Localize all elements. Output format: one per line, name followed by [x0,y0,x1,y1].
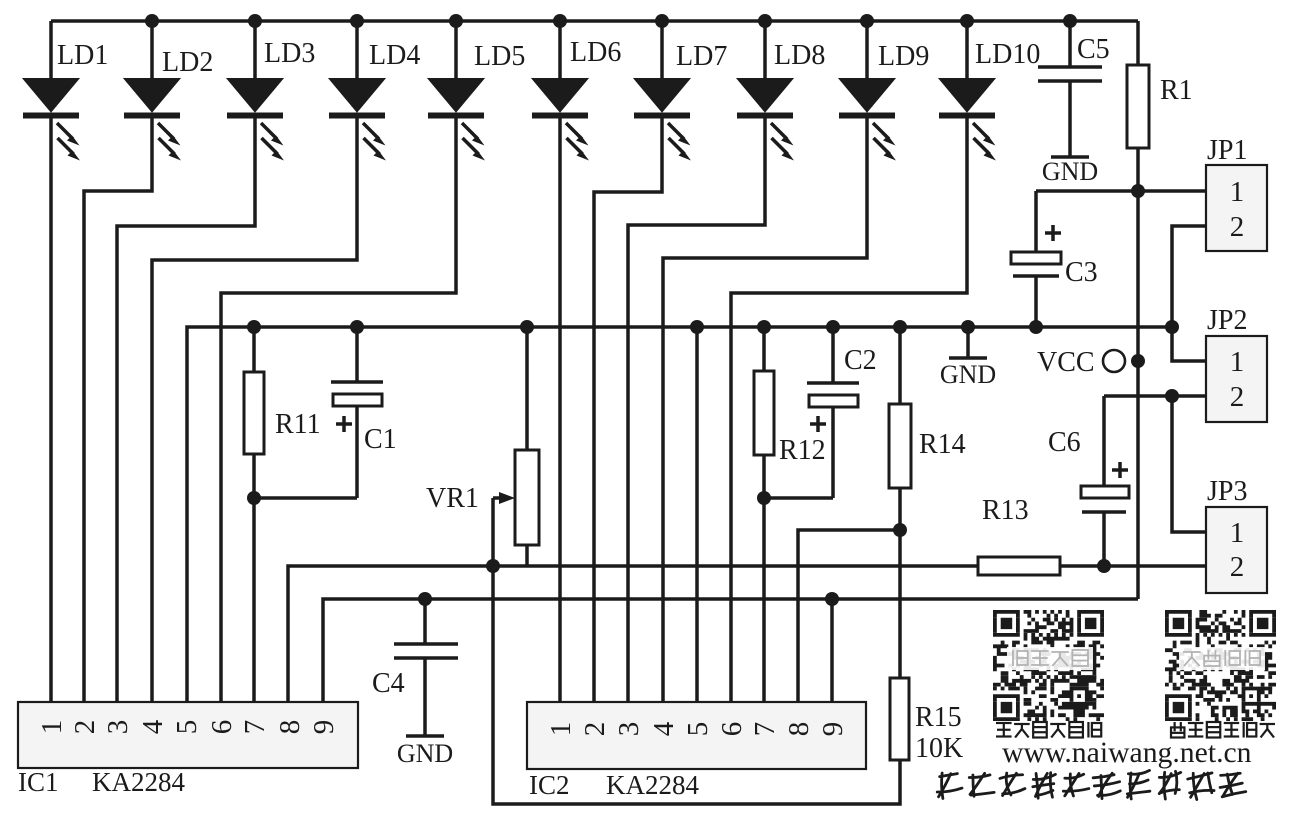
caption right QR [1171,722,1184,738]
connector JP2 [1206,305,1267,422]
ground C5 [1068,81,1072,157]
wire LD6 cathode to IC2 pin1 [558,118,562,702]
svg-text:JP3: JP3 [1207,476,1247,507]
QR code right [1165,610,1276,721]
svg-text:GND: GND [397,739,453,768]
svg-text:LD3: LD3 [264,38,315,69]
wire LD9 cathode to IC2 pin4 [663,118,867,702]
svg-text:R1: R1 [1160,75,1193,106]
IC U2 IC2 KA2284 [527,702,866,769]
svg-text:LD10: LD10 [975,39,1040,70]
svg-text:VR1: VR1 [426,483,479,514]
svg-text:LD5: LD5 [474,41,525,72]
resistor R14 [889,404,911,488]
resistor R1 [1127,65,1149,148]
capacitor C5 [1068,21,1072,67]
svg-text:C1: C1 [364,424,397,455]
wire IC2 pin8 to R14 bottom [798,530,900,702]
capacitor C1 [355,327,359,382]
QR code left [993,610,1104,721]
company name calligraphy [935,771,963,799]
svg-text:5: 5 [682,722,714,737]
resistor R15 [890,678,909,760]
svg-text:C2: C2 [844,345,877,376]
svg-text:8: 8 [274,720,306,735]
svg-text:C4: C4 [372,668,405,699]
wire VR1 top [525,327,529,450]
svg-text:GND: GND [940,360,996,389]
LED LD8 [737,21,794,161]
wire LD7 cathode to IC2 pin2 [594,118,662,702]
IC U1 IC1 KA2284 [18,702,358,768]
svg-text:www.naiwang.net.cn: www.naiwang.net.cn [1002,737,1252,769]
ground mid [966,327,970,358]
LED LD5 [428,21,485,161]
resistor R13 [978,557,1060,575]
ground C4 [423,658,427,736]
wire R1 bottom / VCC vertical [1136,148,1140,599]
wire C2 bottom to R12 node [764,496,833,500]
resistor R12 [754,371,774,455]
capacitor C3 [1034,191,1038,252]
svg-text:2: 2 [579,722,611,737]
LED LD4 [329,21,386,161]
svg-text:4: 4 [137,719,169,734]
svg-text:C6: C6 [1048,427,1081,458]
svg-text:3: 3 [102,720,134,735]
potentiometer VR1 [515,450,539,545]
svg-text:1: 1 [1230,517,1245,549]
wire IC2 pin5 to GND bus [695,327,699,702]
svg-text:10K: 10K [915,733,963,764]
svg-text:2: 2 [69,720,101,735]
svg-text:LD4: LD4 [369,40,420,71]
junction dots misc [1131,184,1145,198]
svg-text:1: 1 [1230,346,1245,378]
wire LD1 cathode to IC1 pin1 [49,118,53,702]
svg-text:C5: C5 [1077,34,1110,65]
wire top anode rail [51,19,1138,23]
wire JP2 pin2 to C6 [1104,394,1206,398]
VCC terminal [1103,350,1125,372]
svg-text:KA2284: KA2284 [92,767,185,797]
wire LD2 cathode to IC1 pin2 [84,118,152,702]
svg-text:LD6: LD6 [570,37,621,68]
wire LD5 cathode to IC1 pin6 [221,118,456,702]
svg-text:LD9: LD9 [878,41,929,72]
svg-text:R11: R11 [275,409,321,440]
svg-text:JP1: JP1 [1207,135,1247,166]
wire GND bus [187,327,1174,702]
svg-text:R12: R12 [779,435,826,466]
wire IC2 pin9 [830,599,834,702]
wire R11 top [252,327,256,372]
svg-text:9: 9 [817,722,849,737]
wire VCC to IC pin9 rail [323,599,1138,702]
svg-text:1: 1 [36,720,68,735]
svg-text:3: 3 [613,722,645,737]
junction dots GND bus [247,320,261,334]
wire VR1 bottom [525,545,529,566]
svg-text:1: 1 [545,722,577,737]
svg-text:5: 5 [171,720,203,735]
svg-text:KA2284: KA2284 [606,770,699,800]
resistor R11 [244,372,264,454]
wire LD10 cathode to IC2 pin6 [731,118,967,702]
svg-text:LD7: LD7 [676,41,727,72]
svg-text:7: 7 [239,720,271,735]
wire JP1 pin2 to GND bus to JP2 pin1 [1172,226,1206,361]
LED LD10 [939,21,996,161]
wire R11 bottom to IC1 pin7 [252,454,256,702]
wire R14 bottom to R15 top [898,488,902,678]
svg-text:IC1: IC1 [18,767,59,797]
wire JP2 pin2 to JP3 pin1 [1172,396,1206,532]
wire R12 bottom to IC2 pin7 [762,455,766,702]
svg-text:LD8: LD8 [774,40,825,71]
capacitor C6 [1102,396,1106,486]
wire R13 to JP3 pin2 [1060,564,1206,568]
caption left QR [996,722,1012,738]
wire R14 top [898,327,902,404]
wire R12 top [762,327,766,371]
VR1 wiper arrow [493,496,505,500]
svg-text:2: 2 [1230,381,1245,413]
svg-text:8: 8 [783,722,815,737]
wire IC1 pin8 signal line [288,566,978,702]
connector JP3 [1206,476,1267,593]
svg-text:R15: R15 [915,702,962,733]
wire LD4 cathode to IC1 pin4 [152,118,357,702]
wire R1 top [1136,21,1140,65]
LED LD2 [124,21,181,161]
svg-text:LD2: LD2 [162,47,213,78]
wire JP1 pin1 / VCC node [1036,189,1206,193]
svg-text:R14: R14 [919,429,966,460]
svg-text:JP2: JP2 [1207,305,1247,336]
junction dots top rail [145,14,159,28]
svg-text:LD1: LD1 [57,40,108,71]
svg-text:6: 6 [716,722,748,737]
svg-text:9: 9 [308,720,340,735]
capacitor C4 [423,599,427,644]
wire VR1 wiper to R15 bottom [493,498,900,804]
wire LD3 cathode to IC1 pin3 [117,118,255,702]
svg-text:2: 2 [1230,211,1245,243]
LED LD7 [634,21,691,161]
connector JP1 [1206,135,1267,251]
svg-text:VCC: VCC [1037,347,1095,378]
svg-text:7: 7 [749,722,781,737]
LED LD9 [839,21,896,161]
svg-text:1: 1 [1230,176,1245,208]
svg-text:R13: R13 [982,495,1029,526]
capacitor C2 [831,327,835,383]
LED LD6 [532,21,589,161]
wire C1 bottom to R11 node [254,496,357,500]
svg-text:IC2: IC2 [529,770,570,800]
svg-text:C3: C3 [1065,257,1098,288]
svg-text:2: 2 [1230,551,1245,583]
wire LD8 cathode to IC2 pin3 [628,118,765,702]
LED LD1 [23,21,80,161]
LED LD3 [227,21,284,161]
svg-text:4: 4 [648,721,680,736]
svg-text:GND: GND [1042,157,1098,186]
svg-text:6: 6 [206,720,238,735]
